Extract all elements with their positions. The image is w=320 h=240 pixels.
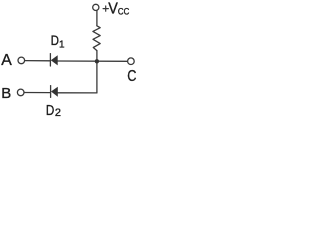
- svg-text:A: A: [1, 52, 12, 69]
- svg-text:2: 2: [55, 107, 61, 119]
- svg-text:D: D: [46, 103, 54, 119]
- svg-text:CC: CC: [118, 7, 130, 17]
- svg-text:V: V: [108, 0, 118, 17]
- svg-text:1: 1: [59, 40, 65, 51]
- svg-text:D: D: [51, 33, 59, 49]
- svg-text:C: C: [127, 68, 136, 85]
- svg-text:B: B: [1, 85, 11, 102]
